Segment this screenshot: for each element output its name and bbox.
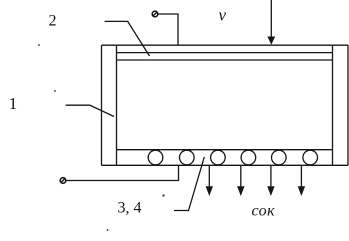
leader line for label 2	[105, 21, 150, 56]
right wall inner edge	[332, 45, 334, 165]
roller 2	[180, 150, 195, 165]
terminal (bottom electrical contact)	[60, 178, 66, 184]
shelf line above rollers	[117, 149, 333, 151]
roller 4	[241, 150, 256, 165]
svg-text:3, 4: 3, 4	[118, 200, 142, 217]
feed arrow (product inlet)	[267, 0, 275, 45]
juice outlet arrow 1	[206, 165, 213, 196]
speck dot 4	[107, 229, 109, 231]
left wall inner edge	[116, 45, 118, 165]
right wall outer edge	[347, 45, 349, 165]
speck dot 1	[38, 44, 40, 46]
svg-text:2: 2	[49, 13, 57, 30]
vessel bottom line	[102, 164, 349, 166]
juice outlet arrow 3	[267, 165, 274, 196]
juice outlet arrow 2	[237, 165, 244, 196]
svg-text:сок: сок	[252, 202, 276, 219]
terminal (top electrical contact)	[152, 11, 158, 17]
leader line for label 1	[66, 105, 114, 116]
roller 6	[303, 150, 318, 165]
wire from top terminal to vessel top	[158, 14, 178, 45]
roller 3	[211, 150, 226, 165]
belt upper line 2	[117, 52, 333, 54]
left wall outer edge	[101, 45, 103, 165]
roller 1	[148, 150, 163, 165]
belt lower line	[117, 59, 333, 61]
speck dot 3	[162, 194, 164, 196]
wire from bottom terminal to vessel bottom	[66, 165, 179, 180]
svg-text:v: v	[219, 6, 227, 25]
roller 5	[272, 150, 287, 165]
speck dot 2	[54, 90, 56, 92]
juice outlet arrow 4	[298, 165, 305, 196]
svg-text:1: 1	[9, 94, 17, 113]
leader line for label 3,4	[174, 157, 204, 211]
vessel top line	[102, 44, 349, 46]
